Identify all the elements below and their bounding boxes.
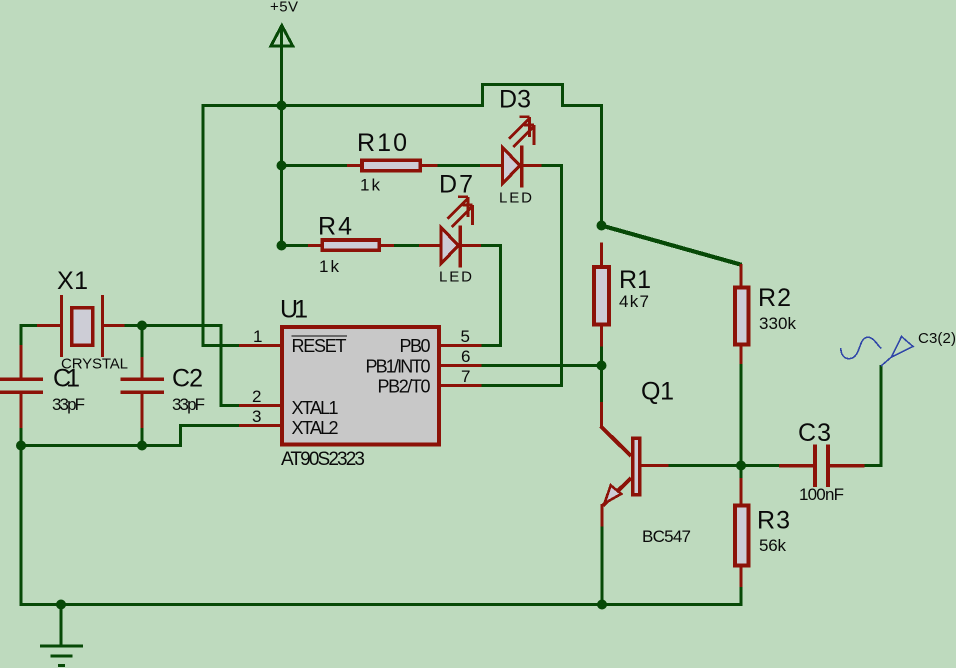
svg-text:C3(2): C3(2)	[918, 330, 956, 347]
label R10	[357, 129, 407, 157]
label R2	[758, 284, 791, 312]
wire bottom row under caps	[20, 426, 241, 446]
label U1	[280, 296, 308, 324]
label LED (D7)	[439, 269, 472, 286]
label AT90S2323	[281, 449, 365, 470]
label Q1	[641, 378, 674, 406]
svg-text:56k: 56k	[759, 536, 787, 555]
label C3(2)	[918, 330, 956, 347]
junction node crystal/C2	[137, 321, 147, 331]
svg-text:7: 7	[461, 367, 470, 386]
svg-text:Q1: Q1	[641, 378, 674, 406]
svg-text:1: 1	[253, 327, 262, 346]
label 100nF	[799, 485, 844, 504]
crystal X1	[37, 295, 125, 357]
label 330k	[759, 314, 797, 333]
label R3	[757, 507, 790, 535]
junction node ground stub	[56, 600, 66, 610]
junction node base/R2/R3	[736, 461, 746, 471]
svg-text:33pF: 33pF	[52, 395, 85, 414]
wire diagonal bus to R2	[602, 226, 742, 265]
capacitor C3	[779, 445, 865, 488]
svg-text:R3: R3	[757, 507, 790, 535]
svg-text:D3: D3	[499, 86, 531, 114]
pin name RESET with overline	[292, 336, 348, 356]
wire RESET row	[202, 344, 241, 347]
svg-text:33pF: 33pF	[172, 395, 205, 414]
power +5V symbol	[271, 26, 293, 47]
pin 1 RESET stub	[239, 344, 281, 347]
wire R10 to D3	[436, 164, 481, 167]
svg-text:100nF: 100nF	[799, 485, 844, 504]
svg-text:C2: C2	[172, 365, 203, 393]
label 33pF (C1)	[52, 395, 85, 414]
svg-text:BC547: BC547	[642, 527, 691, 546]
resistor R4	[308, 240, 394, 250]
wire D7 cathode to PB0	[480, 246, 501, 346]
label D7	[439, 171, 473, 199]
wire crystal row right to XTAL1	[124, 326, 240, 406]
label R4	[318, 213, 352, 241]
svg-text:U1: U1	[280, 296, 308, 324]
svg-text:C1: C1	[53, 365, 80, 393]
junction node C2 bottom row	[137, 441, 147, 451]
svg-text:2: 2	[252, 387, 261, 406]
label R1	[619, 266, 651, 294]
pin 2 XTAL1 stub	[239, 404, 281, 407]
voltage probe C3(2)	[841, 337, 913, 367]
capacitor C2	[121, 357, 165, 428]
junction node emitter/ground row	[597, 600, 607, 610]
pin number 3	[252, 407, 261, 426]
LED D7	[419, 197, 481, 268]
transistor Q1 BC547	[601, 402, 669, 527]
svg-text:6: 6	[461, 347, 470, 366]
junction node R10 row	[277, 161, 287, 171]
wire C2 bottom	[141, 427, 144, 447]
resistor R2	[735, 264, 749, 364]
pin number 1	[253, 327, 262, 346]
label C3	[798, 419, 831, 447]
junction node bus/+5V	[277, 101, 287, 111]
wire PB1 row	[481, 364, 603, 367]
svg-text:330k: 330k	[759, 314, 797, 333]
wire C2 top	[141, 324, 144, 358]
label D3	[499, 86, 531, 114]
svg-text:X1: X1	[57, 267, 88, 295]
svg-text:4k7: 4k7	[619, 292, 649, 311]
label LED (D3)	[499, 190, 532, 207]
capacitor C1	[0, 345, 43, 428]
svg-text:R2: R2	[758, 284, 791, 312]
svg-text:RESET: RESET	[292, 336, 347, 356]
pin name XTAL2	[292, 418, 339, 438]
wire R2 bottom column	[740, 363, 743, 467]
wire top +5V bus	[203, 85, 602, 348]
pin 6 PB1 stub	[441, 364, 482, 367]
svg-text:XTAL2: XTAL2	[292, 418, 339, 438]
wire ground stub	[60, 603, 63, 646]
wire C3 right to probe column	[863, 365, 881, 466]
pin name PB2/T0	[378, 377, 431, 397]
wire R4 row left	[280, 244, 310, 247]
svg-text:R4: R4	[318, 213, 352, 241]
svg-text:PB1/INT0: PB1/INT0	[366, 357, 431, 377]
LED D3	[480, 117, 542, 188]
wire C1 bottom	[20, 427, 23, 447]
svg-text:5: 5	[461, 327, 470, 346]
wire R3 bottom column	[740, 585, 743, 606]
pin name PB0	[400, 336, 431, 356]
svg-text:R1: R1	[619, 266, 651, 294]
pin name XTAL1	[292, 398, 339, 418]
label X1	[57, 267, 88, 295]
svg-text:PB0: PB0	[400, 336, 431, 356]
pin number 5	[461, 327, 470, 346]
label 1k (R10)	[360, 176, 381, 195]
svg-text:XTAL1: XTAL1	[292, 398, 339, 418]
label C2	[172, 365, 203, 393]
wire R4 to D7	[393, 244, 420, 247]
svg-text:R10: R10	[357, 129, 407, 157]
junction node R1 top	[597, 221, 607, 231]
resistor R3	[735, 478, 749, 587]
wire emitter to ground row	[601, 525, 604, 606]
label BC547	[642, 527, 691, 546]
label 56k	[759, 536, 787, 555]
power +5V label	[270, 0, 298, 16]
wire C3 left	[740, 464, 780, 467]
pin number 2	[252, 387, 261, 406]
wire left down to ground row	[20, 444, 23, 606]
label C1	[53, 365, 80, 393]
wire D3 cathode to PB2	[481, 166, 562, 386]
svg-text:C3: C3	[798, 419, 831, 447]
pin 5 PB0 stub	[441, 344, 482, 347]
label 33pF (C2)	[172, 395, 205, 414]
svg-text:LED: LED	[439, 269, 472, 286]
label CRYSTAL	[61, 356, 128, 373]
resistor R1	[594, 243, 609, 347]
junction node PB1/R1	[597, 361, 607, 371]
svg-text:AT90S2323: AT90S2323	[281, 449, 365, 470]
wire R3 top green	[740, 464, 743, 480]
wire ground row	[20, 603, 743, 606]
svg-text:D7: D7	[439, 171, 473, 199]
pin 3 XTAL2 stub	[239, 424, 281, 427]
wire R10 row left	[280, 164, 348, 167]
ground symbol	[40, 646, 83, 666]
wire crystal row left	[20, 326, 39, 347]
label 1k (R4)	[319, 257, 340, 276]
wire base row	[667, 464, 742, 467]
junction node R4 row	[277, 241, 287, 251]
svg-text:LED: LED	[499, 190, 532, 207]
pin number 6	[461, 347, 470, 366]
svg-text:PB2/T0: PB2/T0	[378, 377, 431, 397]
wire R1 bottom to PB1 node	[600, 344, 603, 403]
pin name PB1/INT0	[366, 357, 431, 377]
op-amp U1 body AT90S2323	[282, 327, 439, 444]
label 4k7	[619, 292, 649, 311]
wire +5V stem	[280, 26, 283, 246]
pin 7 PB2 stub	[441, 384, 482, 387]
svg-text:+5V: +5V	[270, 0, 298, 16]
pin number 7	[461, 367, 470, 386]
svg-text:3: 3	[252, 407, 261, 426]
junction node C1 bottom row	[16, 441, 26, 451]
resistor R10	[347, 160, 438, 171]
